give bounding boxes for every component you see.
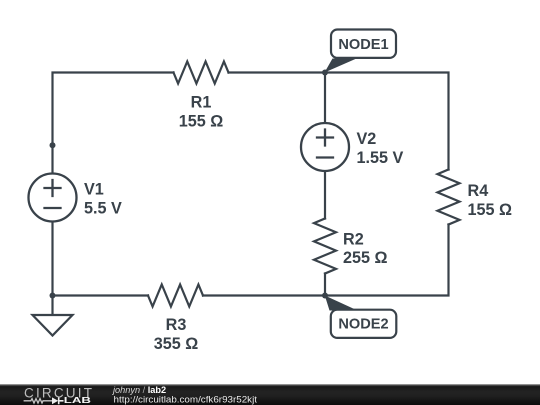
ground GND stub: [51, 296, 53, 316]
junction dot NODE2: [322, 293, 328, 299]
node NODE2 callout pointer: [325, 296, 358, 311]
svg-text:V2: V2: [357, 130, 377, 148]
wire right-bottom: R4 bottom to bottom-right corner to NODE2 junction: [325, 225, 449, 296]
resistor R2: [314, 219, 336, 274]
wire top-left: V1 top to R1 left: [53, 73, 174, 174]
svg-text:355 Ω: 355 Ω: [154, 335, 199, 353]
footer bar: [0, 384, 540, 405]
svg-text:1.55 V: 1.55 V: [357, 149, 404, 167]
svg-text:155 Ω: 155 Ω: [179, 112, 224, 130]
wire middle-bottom: R2 bottom to NODE2 junction: [324, 274, 326, 296]
wire middle: V2 bottom to R2 top: [324, 171, 326, 219]
voltage source V2: [301, 123, 349, 171]
svg-text:V1: V1: [84, 181, 104, 199]
resistor R4: [438, 170, 460, 225]
junction dot on left wire (node A): [50, 142, 56, 148]
logo diode symbol: [52, 397, 58, 404]
junction dot NODE1: [322, 70, 328, 76]
svg-text:155 Ω: 155 Ω: [468, 201, 513, 219]
svg-text:R1: R1: [191, 93, 212, 111]
voltage source V1: [29, 174, 77, 222]
svg-text:NODE1: NODE1: [338, 37, 388, 53]
wire bottom-left: R3 left to ground junction: [53, 294, 149, 296]
logo resistor squiggle with leads: [24, 399, 52, 403]
wire middle-top: NODE1 junction to V2 top: [324, 73, 326, 124]
svg-text:http://circuitlab.com/cfk6r93r: http://circuitlab.com/cfk6r93r52kjt: [114, 395, 258, 405]
svg-text:R4: R4: [468, 182, 489, 200]
wire top-mid: R1 right to NODE1 junction: [229, 71, 326, 73]
wire bottom-mid: NODE2 junction to R3 right: [203, 294, 325, 296]
ground GND triangle: [33, 315, 73, 336]
svg-text:255 Ω: 255 Ω: [343, 249, 388, 267]
node NODE1 label box: [331, 30, 396, 58]
svg-text:5.5 V: 5.5 V: [84, 200, 122, 218]
node NODE2 label box: [331, 310, 397, 338]
resistor R3: [148, 285, 203, 307]
svg-text:NODE2: NODE2: [338, 317, 388, 333]
node NODE1 callout pointer: [325, 59, 357, 73]
svg-text:johnyn / lab2: johnyn / lab2: [111, 385, 166, 395]
svg-text:R3: R3: [166, 316, 187, 334]
svg-text:LAB: LAB: [64, 396, 92, 405]
wire top-right: NODE1 junction to right corner down to R4 top: [325, 73, 449, 170]
resistor R1: [174, 62, 229, 84]
svg-text:R2: R2: [343, 230, 364, 248]
junction dot ground: [50, 293, 56, 299]
wire left: V1 bottom to ground junction: [51, 222, 53, 296]
